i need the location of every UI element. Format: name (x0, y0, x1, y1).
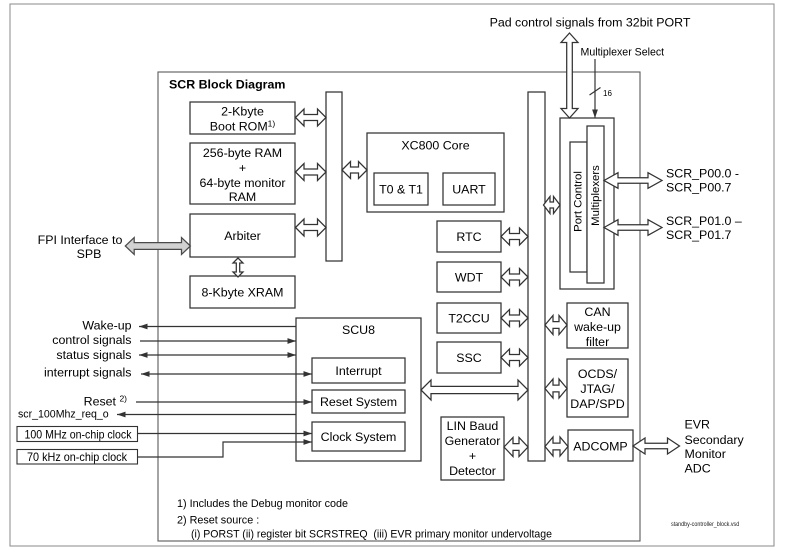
block T0 & T1 (374, 173, 428, 205)
block XRAM (190, 276, 295, 308)
bus arrow bar1 - XC800 (342, 162, 367, 179)
bus arrow RTC - bar2 (501, 228, 528, 245)
svg-text:100 MHz on-chip clock: 100 MHz on-chip clock (25, 427, 132, 441)
svg-text:Wake-up: Wake-up (82, 319, 131, 333)
bus arrow T2CCU - bar2 (501, 310, 528, 327)
svg-text:2-Kbyte: 2-Kbyte (221, 105, 264, 119)
svg-text:XC800 Core: XC800 Core (401, 139, 469, 153)
svg-text:+: + (469, 449, 476, 463)
block RAM (190, 143, 295, 204)
svg-text:16: 16 (603, 89, 612, 98)
svg-text:ADC: ADC (685, 462, 711, 476)
svg-text:SCR_P00.7: SCR_P00.7 (666, 181, 732, 195)
svg-text:standby-controller_block.vsd: standby-controller_block.vsd (671, 521, 739, 528)
bus arrow SCU8 - bar2 (421, 380, 528, 400)
svg-text:T2CCU: T2CCU (448, 312, 489, 326)
block SSC (437, 342, 501, 373)
svg-text:control signals: control signals (52, 333, 131, 347)
io arrow Pad control signals (561, 33, 578, 118)
wire 100 MHz clock (138, 433, 313, 435)
svg-text:OCDS/: OCDS/ (578, 367, 618, 381)
bus arrow WDT - bar2 (501, 269, 528, 286)
block RTC (437, 221, 501, 252)
wire interrupt signals (141, 373, 312, 375)
block SCU8 (296, 318, 421, 461)
wire Wake-up (139, 326, 296, 328)
svg-text:256-byte RAM: 256-byte RAM (203, 146, 282, 160)
bus arrow bar2 - ADCOMP (545, 437, 568, 456)
bus arrow bar2 - CAN (545, 316, 567, 335)
svg-text:70 kHz on-chip clock: 70 kHz on-chip clock (27, 450, 127, 464)
svg-text:Multiplexer Select: Multiplexer Select (581, 46, 665, 58)
svg-text:Secondary: Secondary (685, 433, 745, 447)
block Interrupt (312, 358, 405, 383)
block LIN Baud Generator + Detector (441, 417, 504, 480)
svg-text:filter: filter (586, 335, 609, 349)
svg-text:SCR_P00.0 -: SCR_P00.0 - (666, 167, 739, 181)
io arrow SCR_P00 (604, 173, 662, 189)
block Port Control (570, 142, 587, 272)
svg-text:JTAG/: JTAG/ (580, 382, 615, 396)
wire scr_100Mhz_req_o (117, 414, 296, 416)
svg-text:ADCOMP: ADCOMP (573, 440, 627, 454)
bus arrow Arbiter - XRAM (233, 258, 243, 277)
bus arrow bar2 - Port Control (544, 197, 561, 214)
block Reset System (312, 390, 405, 413)
svg-text:Multiplexers: Multiplexers (590, 165, 602, 226)
io arrow FPI Interface (125, 238, 190, 255)
svg-text:Pad control signals from 32bit: Pad control signals from 32bit PORT (490, 16, 691, 30)
svg-text:UART: UART (452, 183, 486, 197)
svg-text:Port Control: Port Control (573, 171, 585, 232)
svg-text:1) Includes the Debug monitor: 1) Includes the Debug monitor code (177, 498, 348, 510)
svg-text:SCR Block Diagram: SCR Block Diagram (169, 78, 285, 92)
svg-text:SSC: SSC (456, 351, 482, 365)
svg-text:Detector: Detector (449, 464, 496, 478)
block 70 kHz on-chip clock (17, 450, 138, 465)
block ADCOMP (568, 430, 633, 461)
svg-text:SPB: SPB (77, 247, 102, 261)
bus arrow LIN - bar2 (504, 438, 528, 457)
wire Reset (136, 401, 312, 403)
wire 70 kHz clock (138, 442, 313, 457)
svg-text:scr_100Mhz_req_o: scr_100Mhz_req_o (18, 409, 109, 421)
svg-text:status signals: status signals (56, 348, 131, 362)
svg-text:RTC: RTC (456, 230, 481, 244)
block WDT (437, 262, 501, 292)
block XC800 Core (367, 133, 504, 212)
bus arrow RAM - bar1 (296, 164, 327, 181)
svg-text:WDT: WDT (455, 271, 484, 285)
svg-text:FPI Interface to: FPI Interface to (38, 233, 123, 247)
bus arrow Boot ROM - bar1 (296, 109, 327, 126)
block Clock System (312, 422, 405, 451)
block Port Control Multiplexers outer (560, 118, 614, 289)
bus bar 1 (326, 92, 342, 261)
block OCDS JTAG DAP/SPD (567, 359, 628, 417)
svg-text:wake-up: wake-up (573, 320, 621, 334)
svg-text:Clock System: Clock System (321, 430, 397, 444)
svg-text:DAP/SPD: DAP/SPD (570, 397, 624, 411)
svg-text:(i) PORST (ii) register bit SC: (i) PORST (ii) register bit SCRSTREQ (ii… (191, 529, 552, 541)
wire control signals (140, 340, 296, 342)
bus bar 2 (528, 92, 545, 461)
block Arbiter (190, 214, 295, 257)
svg-text:Boot ROM1): Boot ROM1) (210, 119, 276, 134)
svg-text:EVR: EVR (685, 418, 711, 432)
svg-text:+: + (239, 161, 246, 175)
svg-text:64-byte monitor: 64-byte monitor (199, 176, 285, 190)
svg-text:Reset System: Reset System (320, 395, 397, 409)
svg-text:2) Reset source :: 2) Reset source : (177, 515, 259, 527)
svg-text:Arbiter: Arbiter (224, 229, 261, 243)
wire Multiplexer Select (594, 59, 596, 118)
io arrow ADCOMP - EVR ADC (633, 438, 680, 454)
svg-text:SCR_P01.0 –: SCR_P01.0 – (666, 214, 742, 228)
block T2CCU (437, 303, 501, 333)
bus arrow Arbiter - bar1 (296, 219, 327, 236)
svg-text:interrupt signals: interrupt signals (44, 366, 131, 380)
bus arrow bar2 - OCDS (545, 379, 567, 398)
main diagram border (158, 72, 640, 541)
svg-text:CAN: CAN (584, 305, 610, 319)
block 100 MHz on-chip clock (17, 427, 138, 442)
svg-text:8-Kbyte XRAM: 8-Kbyte XRAM (202, 286, 284, 300)
svg-text:Generator: Generator (445, 434, 501, 448)
svg-text:LIN Baud: LIN Baud (447, 419, 499, 433)
block CAN wake-up filter (567, 303, 628, 348)
wire status signals (139, 354, 296, 356)
svg-text:SCR_P01.7: SCR_P01.7 (666, 228, 732, 242)
block Multiplexers (587, 126, 604, 283)
block UART (443, 173, 495, 205)
svg-text:T0 & T1: T0 & T1 (379, 183, 423, 197)
io arrow SCR_P01 (604, 220, 662, 236)
svg-text:RAM: RAM (229, 190, 257, 204)
svg-text:Interrupt: Interrupt (335, 364, 382, 378)
bus width slash 16 (590, 88, 601, 96)
bus arrow SSC - bar2 (501, 349, 528, 366)
svg-text:SCU8: SCU8 (342, 323, 375, 337)
block Boot ROM (190, 102, 295, 134)
svg-text:Reset 2): Reset 2) (84, 394, 128, 409)
svg-text:Monitor: Monitor (685, 447, 726, 461)
